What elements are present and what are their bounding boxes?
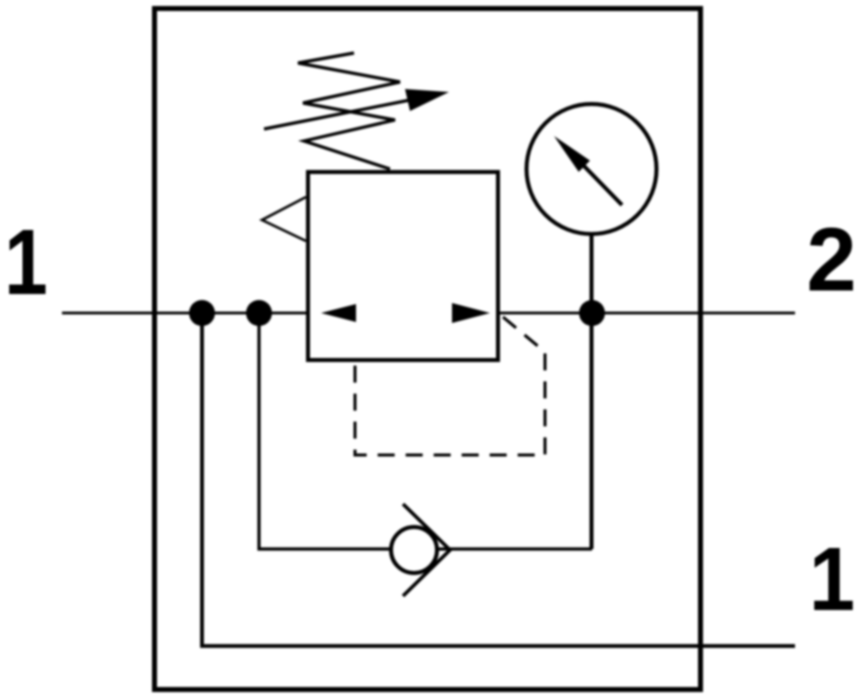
flow arrow right [452, 303, 490, 323]
flow arrow left [321, 304, 356, 322]
regulator valve body U1 [308, 172, 498, 360]
adjustment arrowhead [405, 89, 449, 111]
check valve body [391, 527, 437, 573]
check valve seat [403, 504, 450, 596]
node A junction dot [189, 300, 215, 326]
svg-text:1: 1 [809, 530, 855, 630]
gauge needle shaft [584, 166, 622, 205]
wire: gauge stem down through node to check valve line [590, 233, 594, 549]
spring (adjustable) [298, 53, 400, 169]
wire: main line port 1 to port 2 [62, 312, 795, 315]
svg-text:1: 1 [4, 211, 47, 315]
node B junction dot [246, 300, 272, 326]
pilot relief triangle [262, 197, 306, 241]
wire: left drop from node A to bottom port 1 [202, 313, 795, 646]
dashed pilot line [355, 317, 545, 455]
node C junction dot [579, 300, 605, 326]
port label 1 (bottom right) [809, 530, 855, 630]
port label 1 (left) [4, 211, 47, 315]
pressure gauge G1 [527, 104, 657, 234]
wire: bypass branch from node B down and right [259, 313, 592, 549]
port label 2 (right) [806, 211, 856, 311]
enclosure frame [155, 9, 701, 690]
gauge needle head [554, 136, 590, 172]
svg-text:2: 2 [806, 211, 856, 311]
adjustment arrow shaft [264, 98, 420, 129]
